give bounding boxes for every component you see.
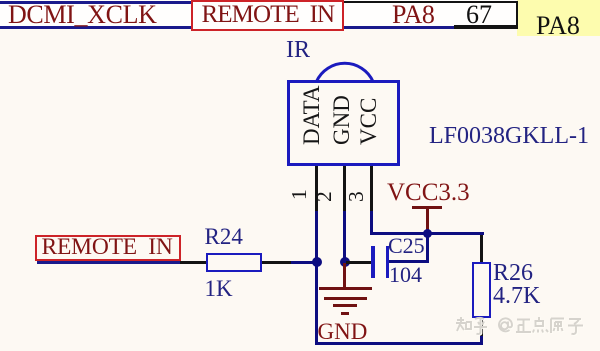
wire: black pin line bottom of row	[454, 25, 518, 29]
VCC3.3 power bar	[412, 206, 442, 209]
node junction dot pin2	[340, 257, 350, 267]
net label REMOTE IN (row)	[202, 2, 335, 27]
wire: R26 bottom to rail (blue)	[480, 336, 483, 345]
node junction dot pin1	[312, 257, 322, 267]
MCU body (yellow)	[517, 0, 600, 36]
node VCC3.3 label	[387, 180, 470, 205]
wire: blue net line top of row	[0, 1, 191, 4]
pin name PA8 (inside MCU)	[536, 13, 580, 39]
resistor R26 designator	[493, 261, 533, 285]
net label REMOTE IN (schematic)	[42, 236, 173, 260]
resistor R24 value 1K	[205, 277, 233, 300]
wire: REMOTE_IN label underline (blue, under red box)	[37, 261, 180, 264]
wire: black pin line top of row	[343, 1, 518, 4]
resistor R26 body	[472, 262, 491, 318]
pin 3 stub (black)	[370, 166, 373, 211]
ground net label GND	[318, 320, 368, 343]
ground symbol GND	[0, 0, 1, 1]
pin number 1 (rotated)	[289, 189, 311, 200]
pin label DATA (rotated)	[300, 85, 323, 145]
resistor R24 body	[206, 253, 262, 272]
pin 2 wire (blue)	[343, 211, 346, 263]
wire: black pin end vertical at MCU body	[516, 1, 519, 28]
wire: VCC horizontal net (pin3 to R26 top)	[370, 232, 484, 235]
net label DCMI_XCLK	[8, 2, 157, 28]
wire: left vertical from pin1 node to rail (blue)	[315, 263, 318, 344]
node REMOTE_IN (red highlight box, schematic)	[35, 235, 181, 261]
wire: R24 right pin (black)	[262, 261, 291, 264]
wire: R26 top pin (black)	[480, 235, 483, 262]
capacitor C25 designator	[388, 235, 425, 257]
wire: label to R24 (black)	[180, 261, 207, 264]
wire: bottom rail (blue)	[315, 342, 483, 345]
resistor R26 value 4.7K	[493, 284, 540, 308]
pin 1 stub (black)	[315, 166, 318, 211]
wire: vertical to VCC junction	[426, 235, 429, 262]
MCU pin-row white band	[0, 0, 518, 29]
capacitor C25 right plate	[386, 246, 390, 278]
pin 2 stub (black)	[343, 166, 346, 211]
node REMOTE_IN (red highlight box, row)	[191, 0, 344, 31]
wire: blue net line bottom of row	[0, 26, 456, 30]
pin number 2 (rotated)	[314, 191, 336, 202]
wire: into node 1 (blue)	[291, 261, 315, 264]
IR receiver part number LF0038GKLL-1	[429, 124, 589, 148]
pin label VCC (rotated)	[357, 97, 380, 144]
capacitor C25 left plate	[371, 246, 375, 278]
node A junction dot (VCC net)	[423, 229, 432, 238]
pin number 67	[466, 2, 492, 28]
wire: C25 right plate to VCC node (blue L)	[389, 260, 429, 263]
VCC3.3 power stem	[426, 208, 429, 232]
ground stem (dark red)	[343, 263, 346, 288]
IR receiver dome arc	[300, 55, 390, 85]
port name PA8	[392, 2, 434, 28]
watermark 知乎 @正点原子	[454, 316, 594, 338]
wire: R26 bottom pin (black)	[480, 318, 483, 336]
resistor R24 designator	[205, 225, 243, 248]
wire: pin2 node to C25 left plate (black)	[346, 261, 372, 264]
pin number 3 (rotated)	[346, 191, 368, 202]
IR receiver body (LF0038GKLL-1)	[287, 80, 400, 166]
IR receiver designator label	[286, 38, 310, 62]
pin 1 wire (blue)	[315, 211, 318, 263]
capacitor C25 value 104	[389, 264, 422, 286]
pin 3 wire (blue)	[370, 211, 373, 235]
pin label GND (rotated)	[330, 95, 353, 145]
